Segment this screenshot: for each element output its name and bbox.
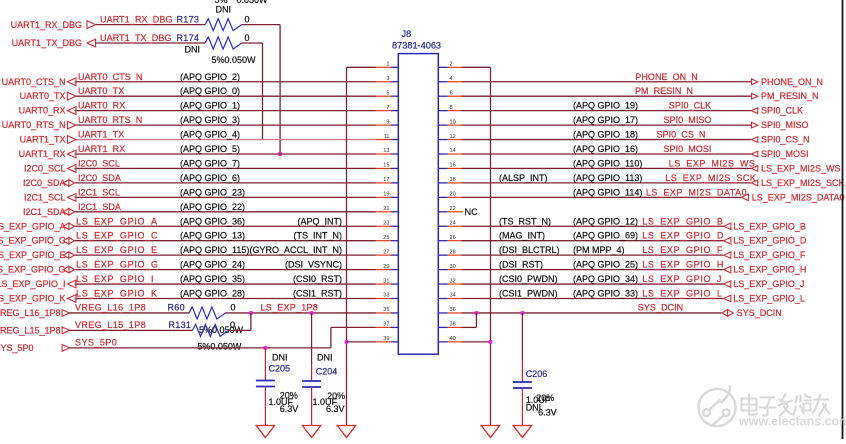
ground	[256, 425, 274, 438]
watermark logo elecfans	[698, 386, 735, 427]
port SYS_DCIN	[722, 308, 782, 318]
capacitor C204 plates	[302, 381, 321, 387]
svg-text:(CSI0_RST): (CSI0_RST)	[293, 274, 342, 284]
pin 5	[376, 90, 398, 96]
svg-text:UART1_TX_DBG: UART1_TX_DBG	[12, 38, 82, 48]
svg-text:(APQ GPIO_6): (APQ GPIO_6)	[180, 173, 240, 183]
port I2C0_SCL	[24, 163, 76, 173]
port LS_EXP_GPIO_B	[724, 221, 806, 231]
wire pin 1 to vertical bus	[347, 66, 376, 68]
svg-text:26: 26	[450, 235, 456, 241]
svg-text:28: 28	[450, 249, 456, 255]
svg-text:LS_EXP_GPIO_K: LS_EXP_GPIO_K	[76, 289, 158, 299]
svg-text:14: 14	[450, 148, 456, 154]
pin 19	[376, 192, 398, 198]
svg-text:UART1_TX_DBG: UART1_TX_DBG	[100, 33, 172, 43]
wire	[311, 387, 313, 425]
svg-text:R174: R174	[177, 33, 200, 43]
junction	[264, 346, 268, 350]
capacitor C204 wire	[311, 313, 313, 381]
svg-text:(APQ_INT): (APQ_INT)	[297, 216, 342, 226]
port VREG_L16_1P8	[0, 308, 69, 318]
svg-text:VREG_L16_1P8: VREG_L16_1P8	[75, 303, 146, 313]
pin 9	[376, 119, 398, 125]
svg-text:I2C1_SCL: I2C1_SCL	[78, 187, 120, 197]
port LS_EXP_MI2S_DATA0	[741, 192, 844, 202]
svg-text:LS_EXP_GPIO_L: LS_EXP_GPIO_L	[733, 294, 805, 304]
svg-text:21: 21	[383, 206, 389, 212]
pin 30	[438, 264, 461, 270]
svg-text:34: 34	[450, 293, 456, 299]
wire vertical SYS_5P0 to pin 37	[330, 327, 332, 348]
svg-text:LS_EXP_GPIO_L: LS_EXP_GPIO_L	[642, 289, 722, 299]
wire net UART0_TX	[75, 95, 376, 97]
svg-text:LS_EXP_MI2S_DATA0: LS_EXP_MI2S_DATA0	[646, 187, 747, 197]
wire	[69, 329, 192, 331]
pin 37	[376, 322, 398, 328]
wire net LS_EXP_GPIO_J	[462, 283, 724, 285]
svg-text:(MAG_INT): (MAG_INT)	[499, 231, 545, 241]
svg-text:SPI0_CS_N: SPI0_CS_N	[657, 130, 706, 140]
wire net LS_EXP_1P8	[226, 312, 376, 314]
ground	[481, 425, 499, 438]
pin 1	[376, 62, 398, 68]
wire net LS_EXP_MI2S_WS	[462, 167, 752, 169]
wire vertical pin38 to SYS_DCIN	[475, 313, 477, 327]
pin 18	[438, 177, 461, 183]
svg-text:39: 39	[383, 336, 389, 342]
port LS_EXP_GPIO_F	[724, 250, 806, 260]
capacitor C205	[264, 348, 266, 381]
svg-text:(APQ GPIO_34): (APQ GPIO_34)	[573, 274, 638, 284]
svg-text:5%0.050W: 5%0.050W	[212, 55, 257, 65]
svg-text:I2C1_SDA: I2C1_SDA	[23, 207, 66, 217]
svg-text:LS_EXP_MI2S_DATA0: LS_EXP_MI2S_DATA0	[752, 192, 845, 202]
svg-text:(PM MPP_4): (PM MPP_4)	[573, 245, 625, 255]
wire	[69, 312, 189, 314]
pin 4	[438, 76, 461, 82]
wire net SYS_DCIN	[462, 312, 723, 314]
svg-text:PHONE_ON_N: PHONE_ON_N	[635, 72, 698, 82]
svg-text:R60: R60	[168, 303, 185, 313]
svg-text:35: 35	[383, 307, 389, 313]
svg-text:UART1_RX_DBG: UART1_RX_DBG	[11, 20, 82, 30]
port PHONE_ON_N	[752, 77, 824, 87]
wire net UART0_RX	[75, 110, 376, 112]
svg-text:UART0_CTS_N: UART0_CTS_N	[2, 77, 66, 87]
svg-text:LS_EXP_MI2S_WS: LS_EXP_MI2S_WS	[669, 158, 756, 168]
port LS_EXP_GPIO_C	[0, 236, 75, 246]
svg-text:LS_EXP_GPIO_I: LS_EXP_GPIO_I	[76, 274, 154, 284]
pin 16	[438, 163, 461, 169]
svg-text:32: 32	[450, 278, 456, 284]
svg-text:38: 38	[450, 322, 456, 328]
pin 8	[438, 105, 461, 111]
svg-text:11: 11	[384, 134, 390, 140]
wire net LS_EXP_MI2S_DATA0	[462, 196, 742, 198]
svg-text:LS_EXP_GPIO_H: LS_EXP_GPIO_H	[733, 265, 806, 275]
svg-text:SPI0_CS_N: SPI0_CS_N	[761, 135, 810, 145]
watermark text	[742, 395, 830, 416]
port LS_EXP_GPIO_K	[0, 294, 76, 304]
svg-text:10: 10	[450, 119, 456, 125]
pin 11	[376, 134, 398, 140]
svg-text:UART0_RX: UART0_RX	[19, 106, 66, 116]
pin 33	[376, 293, 398, 299]
svg-text:6.3V: 6.3V	[280, 404, 299, 414]
resistor R60	[189, 307, 226, 319]
svg-text:SYS_5P0: SYS_5P0	[0, 343, 34, 353]
svg-text:13: 13	[383, 148, 389, 154]
junction	[278, 152, 282, 156]
wire net UART0_CTS_N	[75, 81, 376, 83]
svg-text:19: 19	[383, 192, 389, 198]
svg-text:6.3V: 6.3V	[538, 407, 557, 417]
wire net LS_EXP_GPIO_K	[75, 298, 376, 300]
svg-text:C206: C206	[526, 369, 548, 379]
wire vertical ground bus	[490, 67, 492, 424]
wire net LS_EXP_GPIO_D	[462, 240, 724, 242]
svg-text:15: 15	[383, 163, 389, 169]
svg-text:(APQ GPIO_23): (APQ GPIO_23)	[180, 187, 245, 197]
pin 32	[438, 278, 461, 284]
pin 6	[438, 90, 461, 96]
svg-text:6.3V: 6.3V	[326, 404, 345, 414]
svg-text:3: 3	[386, 76, 389, 82]
svg-text:0: 0	[230, 320, 235, 330]
port VREG_L15_1P8	[0, 326, 69, 336]
pin 15	[376, 163, 398, 169]
pin 21	[376, 206, 398, 212]
pin 2	[438, 62, 461, 68]
pin 3	[376, 76, 398, 82]
svg-text:SPI0_CLK: SPI0_CLK	[669, 101, 711, 111]
svg-text:(DSI_RST): (DSI_RST)	[499, 260, 543, 270]
svg-text:7: 7	[386, 105, 389, 111]
pin 12	[438, 134, 461, 140]
junction	[489, 340, 493, 344]
wire net SPI0_CLK	[462, 110, 752, 112]
resistor R131	[192, 324, 228, 336]
wire net I2C0_SDA	[75, 182, 376, 184]
wire R174 output	[242, 42, 263, 44]
wire	[96, 24, 206, 26]
svg-text:SPI0_MOSI: SPI0_MOSI	[761, 149, 809, 159]
svg-text:I2C0_SDA: I2C0_SDA	[78, 173, 121, 183]
svg-text:(APQ GPIO_5): (APQ GPIO_5)	[180, 144, 240, 154]
pin 26	[438, 235, 461, 241]
svg-text:I2C1_SCL: I2C1_SCL	[24, 192, 66, 202]
wire net LS_EXP_GPIO_A	[75, 225, 376, 227]
svg-text:LS_EXP_GPIO_F: LS_EXP_GPIO_F	[733, 250, 806, 260]
ground	[513, 425, 531, 438]
svg-text:30: 30	[450, 264, 456, 270]
svg-text:LS_EXP_MI2S_WS: LS_EXP_MI2S_WS	[761, 163, 841, 173]
port LS_EXP_GPIO_G	[0, 265, 75, 275]
svg-text:LS_EXP_GPIO_A: LS_EXP_GPIO_A	[76, 216, 158, 226]
wire pin 40	[462, 341, 491, 343]
svg-text:I2C0_SCL: I2C0_SCL	[78, 158, 120, 168]
svg-text:(ALSP_INT): (ALSP_INT)	[499, 173, 548, 183]
svg-text:SPI0_MISO: SPI0_MISO	[664, 115, 712, 125]
svg-text:NC: NC	[465, 207, 479, 217]
svg-text:(DSI_VSYNC): (DSI_VSYNC)	[285, 260, 342, 270]
port UART1_RX	[19, 149, 76, 159]
svg-text:UART0_TX: UART0_TX	[20, 91, 66, 101]
svg-text:VREG_L15_1P8: VREG_L15_1P8	[75, 320, 146, 330]
svg-text:SYS_DCIN: SYS_DCIN	[737, 308, 782, 318]
junction	[345, 340, 349, 344]
wire vertical R173 to UART1_RX row	[279, 25, 281, 154]
svg-text:J8: J8	[402, 29, 412, 39]
pin 29	[376, 264, 398, 270]
svg-text:0.050W: 0.050W	[237, 0, 269, 5]
svg-text:UART0_RTS_N: UART0_RTS_N	[2, 120, 66, 130]
svg-text:LS_EXP_GPIO_B: LS_EXP_GPIO_B	[642, 216, 723, 226]
svg-text:(TS_INT_N): (TS_INT_N)	[293, 231, 342, 241]
svg-text:27: 27	[383, 249, 389, 255]
pin 20	[438, 192, 461, 198]
svg-text:(APQ GPIO_28): (APQ GPIO_28)	[180, 289, 245, 299]
svg-text:UART0_RTS_N: UART0_RTS_N	[78, 115, 142, 125]
pin 23	[376, 220, 398, 226]
port LS_EXP_GPIO_J	[724, 279, 805, 289]
pin 7	[376, 105, 398, 111]
wire vertical R174 to UART1_TX row	[262, 43, 264, 140]
svg-text:17: 17	[383, 177, 389, 183]
wire net SPI0_MOSI	[462, 153, 752, 155]
svg-text:16: 16	[450, 163, 456, 169]
svg-text:(APQ GPIO_35): (APQ GPIO_35)	[180, 274, 245, 284]
svg-text:(APQ GPIO_36): (APQ GPIO_36)	[180, 216, 245, 226]
wire net I2C1_SCL	[75, 196, 376, 198]
svg-text:0: 0	[245, 14, 250, 24]
svg-text:(APQ GPIO_69): (APQ GPIO_69)	[573, 231, 638, 241]
wire net PHONE_ON_N	[462, 81, 752, 83]
resistor R173	[205, 19, 242, 31]
port LS_EXP_GPIO_H	[724, 265, 807, 275]
svg-text:31: 31	[383, 278, 389, 284]
svg-text:UART1_RX_DBG: UART1_RX_DBG	[100, 14, 173, 24]
port SPI0_CS_N	[752, 135, 810, 145]
pin 17	[376, 177, 398, 183]
wire net SPI0_CS_N	[462, 139, 752, 141]
svg-text:(APQ GPIO_4): (APQ GPIO_4)	[180, 130, 240, 140]
svg-text:LS_EXP_GPIO_J: LS_EXP_GPIO_J	[642, 274, 722, 284]
svg-text:5: 5	[386, 90, 389, 96]
svg-text:(APQ GPIO_17): (APQ GPIO_17)	[573, 115, 638, 125]
wire pin 38	[462, 326, 477, 328]
svg-text:9: 9	[386, 119, 389, 125]
svg-text:0: 0	[231, 303, 236, 313]
pin 34	[438, 293, 461, 299]
svg-text:www.elecfans.com: www.elecfans.com	[738, 415, 846, 429]
wire	[264, 387, 266, 425]
svg-text:(APQ GPIO_25): (APQ GPIO_25)	[573, 260, 638, 270]
svg-text:LS_EXP_GPIO_D: LS_EXP_GPIO_D	[733, 236, 807, 246]
port PM_RESIN_N	[752, 91, 819, 101]
wire vertical R131 to LS_EXP_1P8	[250, 313, 252, 330]
svg-text:UART1_TX: UART1_TX	[78, 130, 124, 140]
port UART0_RTS_N	[2, 120, 76, 130]
svg-text:VREG_L15_1P8: VREG_L15_1P8	[0, 326, 61, 336]
svg-text:5%0.050W: 5%0.050W	[197, 342, 242, 352]
svg-text:(GYRO_ACCL_INT_N): (GYRO_ACCL_INT_N)	[249, 245, 342, 255]
svg-text:LS_EXP_GPIO_E: LS_EXP_GPIO_E	[76, 245, 158, 255]
port SYS_5P0	[0, 343, 69, 353]
svg-text:UART0_CTS_N: UART0_CTS_N	[78, 72, 142, 82]
port SPI0_MISO	[752, 120, 809, 130]
svg-text:LS_EXP_GPIO_E: LS_EXP_GPIO_E	[0, 250, 66, 260]
svg-text:I2C0_SDA: I2C0_SDA	[23, 178, 66, 188]
wire net LS_EXP_GPIO_H	[462, 269, 724, 271]
svg-text:DNI: DNI	[317, 352, 333, 362]
connector J8 body	[398, 54, 438, 355]
pin 25	[376, 235, 398, 241]
pin 27	[376, 249, 398, 255]
svg-text:PHONE_ON_N: PHONE_ON_N	[761, 77, 823, 87]
ground	[302, 425, 320, 438]
wire net LS_EXP_MI2S_SCK	[462, 182, 752, 184]
junction	[521, 311, 525, 315]
svg-text:1: 1	[386, 62, 389, 68]
svg-text:LS_EXP_GPIO_A: LS_EXP_GPIO_A	[0, 221, 66, 231]
pin 14	[438, 148, 461, 154]
svg-text:LS_EXP_MI2S_SCK: LS_EXP_MI2S_SCK	[665, 173, 756, 183]
svg-text:(CSI1_PWDN): (CSI1_PWDN)	[499, 289, 558, 299]
svg-text:LS_EXP_GPIO_H: LS_EXP_GPIO_H	[642, 260, 724, 270]
resistor R174	[205, 37, 242, 49]
wire net UART1_TX	[75, 139, 376, 141]
svg-text:(APQ GPIO_12): (APQ GPIO_12)	[573, 216, 638, 226]
svg-text:18: 18	[450, 177, 456, 183]
svg-text:(APQ GPIO_16): (APQ GPIO_16)	[573, 144, 638, 154]
pin 35	[376, 307, 398, 313]
port UART1_TX	[20, 135, 76, 145]
pin 10	[438, 119, 461, 125]
svg-text:(APQ GPIO_19): (APQ GPIO_19)	[573, 101, 638, 111]
junction	[310, 311, 314, 315]
svg-text:LS_EXP_1P8: LS_EXP_1P8	[261, 303, 318, 313]
svg-text:29: 29	[383, 264, 389, 270]
svg-text:37: 37	[383, 322, 389, 328]
svg-text:(APQ GPIO_7): (APQ GPIO_7)	[180, 158, 240, 168]
port SPI0_MOSI	[752, 149, 809, 159]
svg-text:33: 33	[383, 293, 389, 299]
svg-text:LS_EXP_GPIO_C: LS_EXP_GPIO_C	[76, 231, 158, 241]
wire pin 2 to ground bus	[462, 66, 491, 68]
svg-text:R173: R173	[177, 14, 200, 24]
wire net UART1_RX	[75, 153, 376, 155]
ground	[337, 425, 355, 438]
svg-text:LS_EXP_GPIO_F: LS_EXP_GPIO_F	[642, 245, 723, 255]
svg-text:LS_EXP_GPIO_D: LS_EXP_GPIO_D	[642, 231, 724, 241]
svg-text:24: 24	[450, 220, 456, 226]
wire net LS_EXP_GPIO_B	[462, 225, 724, 227]
junction	[475, 311, 479, 315]
svg-text:VREG_L16_1P8: VREG_L16_1P8	[0, 308, 61, 318]
wire	[96, 42, 206, 44]
svg-text:(APQ GPIO_13): (APQ GPIO_13)	[180, 231, 245, 241]
port I2C0_SDA	[23, 178, 75, 188]
page border	[842, 0, 844, 439]
svg-text:(APQ GPIO_1): (APQ GPIO_1)	[180, 101, 240, 111]
svg-text:12: 12	[450, 134, 456, 140]
svg-text:25: 25	[383, 235, 389, 241]
svg-text:LS_EXP_GPIO_G: LS_EXP_GPIO_G	[0, 265, 66, 275]
svg-text:PM_RESIN_N: PM_RESIN_N	[761, 91, 819, 101]
svg-text:LS_EXP_GPIO_J: LS_EXP_GPIO_J	[733, 279, 804, 289]
wire net UART0_RTS_N	[75, 124, 376, 126]
svg-text:87381-4063: 87381-4063	[392, 40, 441, 50]
pin 22	[438, 206, 461, 212]
svg-text:4: 4	[450, 76, 453, 82]
svg-text:SPI0_CLK: SPI0_CLK	[761, 106, 803, 116]
wire	[521, 389, 523, 425]
svg-text:(CSI1_RST): (CSI1_RST)	[293, 289, 342, 299]
svg-text:LS_EXP_GPIO_G: LS_EXP_GPIO_G	[76, 260, 159, 270]
svg-text:(APQ GPIO_114): (APQ GPIO_114)	[573, 187, 642, 197]
wire net SPI0_MISO	[462, 124, 752, 126]
wire to pin 39	[347, 341, 376, 343]
svg-text:23: 23	[383, 220, 389, 226]
svg-text:R131: R131	[169, 320, 192, 330]
wire net LS_EXP_GPIO_I	[75, 283, 376, 285]
wire net LS_EXP_GPIO_G	[75, 269, 376, 271]
svg-text:I2C1_SDA: I2C1_SDA	[78, 202, 121, 212]
svg-text:6: 6	[450, 90, 453, 96]
wire R131 output	[229, 329, 251, 331]
svg-text:22: 22	[450, 206, 456, 212]
pin 28	[438, 249, 461, 255]
svg-text:(DSI_BLCTRL): (DSI_BLCTRL)	[499, 245, 560, 255]
port LS_EXP_GPIO_A	[0, 221, 75, 231]
svg-text:LS_EXP_GPIO_I: LS_EXP_GPIO_I	[0, 279, 66, 289]
svg-text:DNI: DNI	[185, 45, 201, 55]
pin 36	[438, 307, 461, 313]
svg-text:2: 2	[450, 62, 453, 68]
port SPI0_CLK	[752, 106, 804, 116]
wire net SYS_5P0	[69, 347, 331, 349]
svg-text:PM_RESIN_N: PM_RESIN_N	[635, 86, 693, 96]
svg-text:UART0_RX: UART0_RX	[78, 101, 125, 111]
wire vertical pin1/pin39 ground bus	[346, 67, 348, 424]
svg-text:(APQ GPIO_24): (APQ GPIO_24)	[180, 260, 245, 270]
port UART0_TX	[20, 91, 76, 101]
port LS_EXP_GPIO_I	[0, 279, 76, 289]
port UART0_CTS_N	[2, 77, 76, 87]
svg-text:LS_EXP_MI2S_SCK: LS_EXP_MI2S_SCK	[761, 178, 845, 188]
pin 13	[376, 148, 398, 154]
svg-text:(TS_RST_N): (TS_RST_N)	[499, 216, 551, 226]
svg-text:UART1_TX: UART1_TX	[20, 135, 66, 145]
svg-text:0: 0	[245, 33, 250, 43]
svg-text:UART0_TX: UART0_TX	[78, 86, 124, 96]
svg-text:36: 36	[450, 307, 456, 313]
svg-text:SPI0_MOSI: SPI0_MOSI	[664, 144, 712, 154]
capacitor C206 wire	[521, 313, 523, 382]
port LS_EXP_GPIO_L	[724, 294, 805, 304]
port I2C1_SDA	[23, 207, 75, 217]
wire to pin 37	[331, 326, 376, 328]
pin 38	[438, 322, 461, 328]
pin 39	[376, 336, 398, 342]
svg-text:SYS_DCIN: SYS_DCIN	[638, 303, 683, 313]
pin 40	[438, 336, 461, 342]
label NC	[462, 207, 479, 217]
port UART1_RX_DBG	[11, 20, 96, 30]
capacitor C205 plates	[256, 381, 275, 387]
